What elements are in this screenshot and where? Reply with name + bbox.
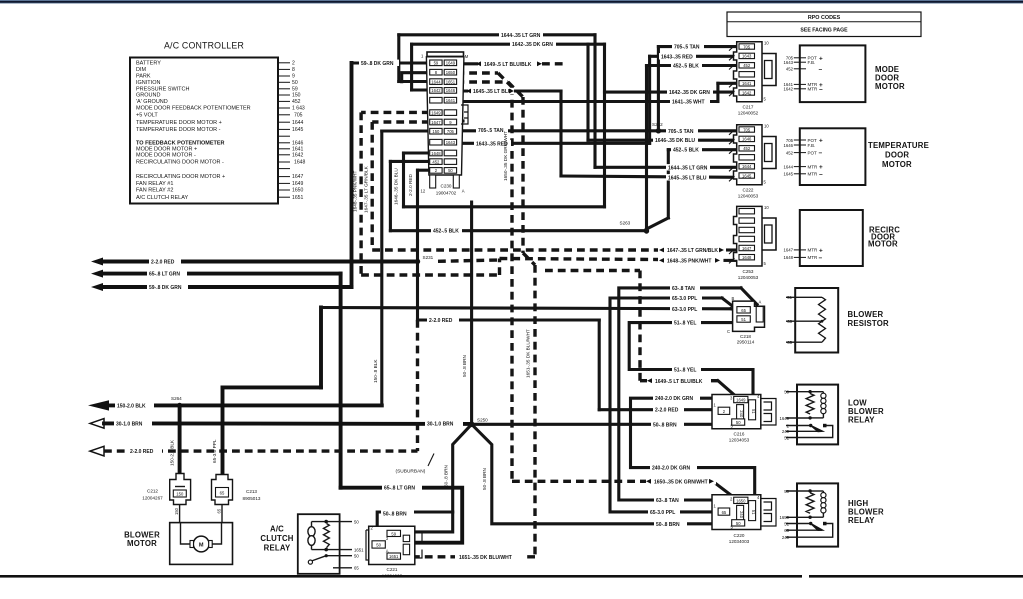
svg-text:59: 59 [292, 86, 298, 92]
svg-text:63-3.0 PPL: 63-3.0 PPL [672, 307, 697, 313]
svg-text:10: 10 [764, 124, 769, 129]
label 705-.5 TAN [666, 128, 698, 135]
svg-text:1642: 1642 [431, 88, 441, 93]
svg-text:1 643: 1 643 [292, 106, 305, 112]
wire 1650-.35 DK GRN/WHT dashed [456, 73, 734, 497]
svg-text:705-.5 TAN: 705-.5 TAN [674, 45, 700, 51]
svg-text:50: 50 [354, 519, 359, 524]
svg-text:50-.8 BRN: 50-.8 BRN [383, 512, 407, 518]
temperature door motor box [783, 128, 929, 185]
svg-text:30-1.0 BRN: 30-1.0 BRN [427, 422, 454, 428]
wire 1649-.5 LT BLU/BLK dashed [456, 64, 736, 397]
svg-text:FAN RELAY #2: FAN RELAY #2 [136, 188, 173, 194]
label 51-.8 YEL [672, 319, 701, 326]
svg-text:65: 65 [220, 491, 225, 496]
svg-text:C: C [727, 329, 730, 334]
wire labels horizontal [114, 32, 726, 561]
svg-text:S250: S250 [477, 418, 488, 423]
svg-text:IGNITION: IGNITION [136, 80, 160, 86]
svg-text:+: + [819, 247, 823, 254]
svg-text:9: 9 [292, 74, 295, 80]
svg-text:1644: 1644 [292, 120, 303, 126]
bottom page rule right [809, 575, 1023, 578]
label 65-.8 LT GRN [382, 485, 422, 492]
svg-text:1641: 1641 [742, 81, 752, 86]
wire 65-.8 LT GRN to C221 [341, 488, 463, 543]
svg-text:50-.8 BRN: 50-.8 BRN [482, 468, 487, 490]
svg-text:F.B.: F.B. [808, 143, 816, 148]
svg-text:2-2.0 RED: 2-2.0 RED [655, 408, 679, 414]
svg-text:59-.8 DK GRN: 59-.8 DK GRN [361, 61, 394, 67]
low blower relay box [779, 385, 884, 445]
svg-text:1648: 1648 [431, 151, 441, 156]
svg-text:12040053: 12040053 [738, 275, 759, 280]
label 1642-.35 DK GRN [510, 41, 556, 48]
label 65-.8 LT GRN [147, 270, 187, 277]
label 63-.8 TAN [670, 285, 700, 292]
svg-text:65-.8 LT GRN: 65-.8 LT GRN [384, 486, 415, 492]
svg-text:M: M [465, 54, 469, 59]
svg-text:50: 50 [736, 420, 741, 425]
label 2-2.0 RED [427, 317, 459, 324]
svg-text:1650: 1650 [446, 70, 456, 75]
svg-text:12: 12 [421, 189, 426, 194]
svg-text:50: 50 [354, 554, 359, 559]
svg-text:1651: 1651 [292, 195, 303, 201]
svg-text:C221: C221 [387, 567, 398, 572]
label 65-3.0 PPL [648, 509, 680, 516]
wire labels rotated [169, 131, 530, 490]
svg-text:2-2.0 RED: 2-2.0 RED [408, 174, 413, 196]
svg-text:2-2.0 RED: 2-2.0 RED [429, 318, 453, 324]
svg-text:150-2.0 BLK: 150-2.0 BLK [169, 439, 174, 466]
svg-text:A/C CONTROLLER: A/C CONTROLLER [164, 41, 244, 51]
svg-text:63-.8 TAN: 63-.8 TAN [672, 286, 695, 292]
svg-text:150-2.0 BLK: 150-2.0 BLK [117, 403, 146, 409]
svg-text:1649: 1649 [431, 110, 441, 115]
svg-text:1642-.35 DK GRN: 1642-.35 DK GRN [669, 90, 710, 96]
label 452-.5 BLK [671, 62, 702, 69]
wire 452-.5 BLK from connector pin 452 to S263 [390, 161, 646, 230]
svg-text:1644: 1644 [742, 164, 752, 169]
svg-text:1642-.35 DK GRN: 1642-.35 DK GRN [512, 42, 553, 48]
svg-text:1642: 1642 [292, 152, 303, 158]
label 1649-.5 LT BLU/BLK [647, 378, 711, 385]
svg-text:'A' GROUND: 'A' GROUND [136, 99, 168, 105]
wire 63-3.0 PPL into C218 [731, 309, 737, 311]
wire 705-.5 TAN to S252 [456, 129, 736, 132]
wire 2-2.0 RED left arrow bus [91, 258, 418, 266]
svg-text:150-.8 BLK: 150-.8 BLK [373, 359, 378, 383]
svg-text:+: + [819, 164, 823, 171]
label 1646-.35 DK BLU [653, 137, 698, 144]
svg-text:B: B [732, 296, 735, 301]
node S231 [415, 259, 420, 264]
svg-text:10: 10 [764, 205, 769, 210]
svg-text:C216: C216 [734, 431, 745, 436]
svg-text:1649-.5 LT BLU/BLK: 1649-.5 LT BLU/BLK [655, 379, 703, 385]
blower motor box [124, 523, 232, 565]
svg-text:−: − [819, 66, 823, 73]
wire 50-.8 BRN to C216 [472, 423, 717, 426]
svg-text:51-.8 YEL: 51-.8 YEL [674, 368, 696, 374]
svg-text:452-.5 BLK: 452-.5 BLK [433, 229, 459, 235]
label 2-2.0 RED [653, 407, 684, 414]
svg-text:1649-.5 LT BLU/BLK: 1649-.5 LT BLU/BLK [484, 62, 532, 68]
wire 50-.8 BRN drop to C221 (left) [377, 424, 471, 541]
label 63-.8 TAN [654, 497, 684, 504]
label 59-.8 DK GRN [147, 284, 188, 291]
svg-text:MODE DOOR FEEDBACK POTENTIOMET: MODE DOOR FEEDBACK POTENTIOMETER [136, 106, 251, 112]
node S264 [177, 403, 182, 408]
svg-text:59: 59 [434, 61, 439, 66]
svg-text:BLOWER: BLOWER [848, 310, 884, 319]
label 1649-.5 LT BLU/BLK [476, 61, 542, 68]
svg-text:705-.5 TAN: 705-.5 TAN [478, 128, 504, 134]
svg-text:452: 452 [432, 159, 440, 164]
svg-text:−: − [819, 87, 823, 94]
svg-text:12004267: 12004267 [142, 495, 163, 500]
svg-text:51: 51 [751, 510, 756, 515]
svg-text:C218: C218 [740, 334, 751, 339]
wire 1648-.35 PNK/WHT dashed [361, 112, 737, 275]
wire 150-2.0 BLK drop to C212 [178, 405, 182, 480]
svg-text:452: 452 [786, 150, 794, 155]
svg-text:12034003: 12034003 [729, 539, 750, 544]
svg-text:1645: 1645 [292, 127, 303, 133]
svg-text:150: 150 [176, 492, 184, 497]
svg-text:150: 150 [432, 129, 440, 134]
svg-text:59: 59 [391, 532, 396, 537]
a/c clutch relay box [260, 514, 364, 574]
wire 65-3.0 PPL riser to resistor and C220 [610, 298, 737, 512]
svg-text:65-3.0 PPL: 65-3.0 PPL [212, 439, 217, 463]
svg-text:1643: 1643 [446, 140, 456, 145]
svg-text:50-.8 BRN: 50-.8 BRN [444, 465, 449, 487]
A/C controller box [130, 58, 278, 204]
svg-text:1647: 1647 [292, 174, 303, 180]
svg-text:MTR: MTR [808, 172, 818, 177]
svg-text:RECIRCULATING DOOR MOTOR -: RECIRCULATING DOOR MOTOR - [136, 160, 224, 166]
svg-text:BATTERY: BATTERY [136, 60, 161, 66]
svg-text:452-.5 BLK: 452-.5 BLK [673, 64, 699, 70]
svg-text:1647: 1647 [742, 246, 752, 251]
label 1644-.35 LT GRN [499, 32, 543, 39]
svg-text:1647-.35 LT GRN/BLK: 1647-.35 LT GRN/BLK [667, 248, 718, 254]
label 30-1.0 BRN [114, 420, 152, 427]
svg-text:452: 452 [743, 63, 751, 68]
svg-text:65: 65 [722, 510, 727, 515]
svg-text:705: 705 [743, 44, 751, 49]
svg-text:30-1.0 BRN: 30-1.0 BRN [116, 421, 143, 427]
svg-text:RELAY: RELAY [264, 544, 291, 553]
svg-text:1643: 1643 [742, 54, 752, 59]
svg-text:1648: 1648 [742, 255, 752, 260]
connector C222 [729, 124, 776, 199]
label 150-2.0 BLK [115, 402, 154, 409]
node S252 [656, 128, 661, 133]
top page border bar [0, 0, 1023, 4]
svg-text:SEE FACING PAGE: SEE FACING PAGE [800, 28, 848, 34]
label 63-3.0 PPL [670, 306, 702, 313]
svg-text:+: + [819, 138, 823, 145]
wire 1644-.35 LT GRN top bus [399, 35, 737, 168]
connector C220 [712, 495, 776, 544]
svg-text:+: + [819, 55, 823, 62]
label 50-.8 BRN [381, 510, 414, 517]
svg-text:452: 452 [743, 146, 751, 151]
svg-text:10: 10 [764, 41, 769, 46]
svg-text:1645-.35 LT BLU: 1645-.35 LT BLU [668, 175, 707, 181]
svg-text:63-.8 TAN: 63-.8 TAN [656, 498, 679, 504]
svg-text:50: 50 [376, 543, 381, 548]
svg-text:A/C: A/C [270, 525, 284, 534]
svg-text:GROUND: GROUND [136, 93, 160, 99]
node S250 [469, 422, 475, 428]
svg-text:705-.5 TAN: 705-.5 TAN [668, 129, 694, 135]
svg-text:POT: POT [808, 150, 818, 155]
label 51-.8 YEL [672, 366, 701, 373]
svg-text:PARK: PARK [136, 74, 151, 80]
svg-text:F.B.: F.B. [808, 60, 816, 65]
svg-text:MOTOR: MOTOR [868, 240, 898, 249]
svg-text:(SUBURBAN): (SUBURBAN) [396, 469, 426, 475]
svg-text:RPO CODES: RPO CODES [808, 15, 841, 21]
svg-text:50: 50 [448, 168, 453, 173]
svg-text:1647-.35 LT GRN/BLK: 1647-.35 LT GRN/BLK [363, 165, 368, 213]
svg-text:65-.8 LT GRN: 65-.8 LT GRN [149, 272, 180, 278]
wire 240-2.0 DK GRN C216 to C220 [631, 398, 755, 505]
svg-text:MODE DOOR MOTOR -: MODE DOOR MOTOR - [136, 152, 196, 158]
svg-text:1641: 1641 [446, 98, 456, 103]
wire 452-.5 BLK riser to C222 [647, 150, 737, 229]
connector C253 [729, 205, 776, 280]
wire 2-2.0 RED vertical from connector pin 2 [418, 170, 430, 451]
svg-text:1650: 1650 [736, 498, 746, 503]
svg-text:1650-.35 DK GRN/WHT: 1650-.35 DK GRN/WHT [654, 480, 708, 486]
svg-text:MTR: MTR [808, 255, 818, 260]
wire 65-3.0 PPL drop to C213 [223, 308, 732, 481]
label 452-.5 BLK [671, 147, 702, 154]
svg-text:CLUTCH: CLUTCH [260, 534, 293, 543]
wire 1641-.35 WHT [456, 83, 736, 101]
label 50-.8 BRN [654, 521, 687, 528]
label 705-.5 TAN [672, 43, 704, 50]
label 30-1.0 BRN [425, 421, 463, 428]
svg-text:65: 65 [354, 566, 359, 571]
svg-text:1644: 1644 [431, 79, 441, 84]
svg-text:RELAY: RELAY [848, 516, 875, 525]
wire 1651-.35 DK BLU/WHT dashed [412, 82, 535, 557]
svg-text:RECIRCULATING DOOR MOTOR +: RECIRCULATING DOOR MOTOR + [136, 174, 225, 180]
svg-text:RESISTOR: RESISTOR [848, 319, 889, 328]
connector C217 [729, 41, 776, 116]
svg-text:1651: 1651 [446, 79, 456, 84]
svg-text:59-.8 DK GRN: 59-.8 DK GRN [149, 285, 182, 291]
svg-text:FAN RELAY #1: FAN RELAY #1 [136, 181, 173, 187]
svg-text:1646: 1646 [446, 88, 456, 93]
wire 59-.8 DK GRN left arrow bus [91, 63, 430, 291]
svg-text:1646: 1646 [783, 143, 793, 148]
svg-text:2: 2 [292, 60, 295, 66]
svg-text:C212: C212 [147, 488, 158, 493]
svg-text:1642: 1642 [742, 90, 752, 95]
svg-text:A/C CLUTCH RELAY: A/C CLUTCH RELAY [136, 195, 188, 201]
connector C218 [727, 296, 765, 344]
label 2-2.0 RED [149, 258, 181, 265]
wire 1647-.35 LT GRN/BLK dashed [372, 122, 737, 250]
svg-text:1648: 1648 [783, 255, 793, 260]
connector C221 [366, 525, 422, 578]
svg-text:8905013: 8905013 [243, 496, 261, 501]
RPO CODES box [727, 12, 921, 37]
svg-text:12034053: 12034053 [729, 437, 750, 442]
svg-text:50: 50 [292, 80, 298, 86]
A/C controller pin list [136, 60, 251, 200]
svg-text:1645: 1645 [783, 172, 793, 177]
label 1641-.35 WHT [670, 98, 710, 105]
svg-text:−: − [819, 171, 823, 178]
svg-text:S231: S231 [423, 255, 434, 260]
wire jumper row10-left to bus [404, 153, 605, 207]
svg-text:1647: 1647 [431, 120, 441, 125]
svg-text:1646-.35 DK BLU: 1646-.35 DK BLU [394, 168, 399, 205]
svg-text:50-.8 BRN: 50-.8 BRN [462, 355, 467, 377]
connector C216 [712, 394, 776, 442]
svg-text:452-.5 BLK: 452-.5 BLK [673, 148, 699, 154]
label 240-2.0 DK GRN [650, 464, 697, 471]
label 59-.8 DK GRN [359, 60, 399, 67]
label 705-.5 TAN [476, 127, 508, 134]
svg-text:A: A [386, 549, 389, 554]
wire 150-2.0 BLK left arrow bus [88, 400, 382, 410]
label 1645-.35 LT BLU [666, 174, 709, 181]
label 1642-.35 DK GRN [667, 89, 713, 96]
svg-text:C253: C253 [743, 269, 754, 274]
svg-text:1651-.35 DK BLU/WHT: 1651-.35 DK BLU/WHT [459, 555, 512, 561]
svg-text:1648-.35 PNK/WHT: 1648-.35 PNK/WHT [353, 170, 358, 212]
svg-text:M: M [199, 543, 204, 549]
svg-text:1643: 1643 [783, 60, 793, 65]
svg-text:1645: 1645 [742, 173, 752, 178]
svg-text:−: − [819, 150, 823, 157]
svg-text:1644-.35 LT GRN: 1644-.35 LT GRN [501, 33, 541, 39]
svg-text:1649: 1649 [446, 61, 456, 66]
svg-text:2950114: 2950114 [737, 339, 755, 344]
svg-text:51-.8 YEL: 51-.8 YEL [674, 321, 696, 327]
svg-text:RELAY: RELAY [848, 416, 875, 425]
wire 2-2.0 RED branch to low blower relay [418, 320, 718, 410]
svg-text:1644-.35 LT GRN: 1644-.35 LT GRN [668, 165, 708, 171]
svg-text:1649: 1649 [736, 398, 746, 403]
svg-text:PRESSURE SWITCH: PRESSURE SWITCH [136, 86, 190, 92]
svg-text:MTR: MTR [808, 248, 818, 253]
wire 1646-.35 DK BLU [588, 44, 737, 140]
svg-text:12034003: 12034003 [382, 573, 403, 578]
svg-text:12040052: 12040052 [738, 111, 759, 116]
connector C230 body [421, 52, 469, 194]
wire 50-.8 BRN drop to C220 [472, 424, 717, 524]
connector C212 [142, 474, 190, 505]
svg-text:1651: 1651 [389, 554, 399, 559]
svg-text:A: A [759, 300, 762, 305]
svg-text:1648: 1648 [294, 160, 305, 166]
svg-text:65-3.0 PPL: 65-3.0 PPL [672, 296, 697, 302]
svg-text:2-2.0 RED: 2-2.0 RED [130, 449, 154, 455]
connector C230 pin boxes [430, 60, 457, 173]
svg-text:2-2.0 RED: 2-2.0 RED [151, 260, 175, 266]
svg-text:MOTOR: MOTOR [127, 539, 157, 548]
recirc door motor box [783, 210, 900, 266]
label 1645-.35 LT BLU [466, 88, 514, 95]
mode door motor box [783, 45, 905, 102]
svg-text:150: 150 [292, 93, 301, 99]
svg-text:240: 240 [739, 511, 744, 519]
svg-text:1648-.35 PNK/WHT: 1648-.35 PNK/WHT [667, 259, 711, 265]
wire 65 stub to blower motor [216, 505, 222, 523]
wire 65-.8 LT GRN left arrow bus [91, 270, 341, 488]
label 65-3.0 PPL [670, 295, 702, 302]
svg-text:A: A [462, 189, 465, 194]
wire 1642-.35 DK GRN top bus [412, 44, 737, 207]
svg-text:MOTOR: MOTOR [875, 82, 905, 91]
wire pin 9 stub [456, 119, 463, 122]
label 1643-.35 RED [659, 53, 696, 60]
label 1647-.35 LT GRN/BLK [658, 247, 726, 254]
svg-text:−: − [819, 255, 823, 262]
svg-text:1650-.35 DK GRN/WHT: 1650-.35 DK GRN/WHT [503, 131, 508, 181]
suburban pointer [396, 454, 435, 475]
high blower relay box [779, 483, 884, 546]
svg-text:TEMPERATURE: TEMPERATURE [868, 141, 929, 150]
svg-text:705: 705 [447, 129, 455, 134]
wire 50-.8 BRN riser from S250 [470, 202, 473, 424]
svg-text:DIM: DIM [136, 67, 147, 73]
node S263 [644, 228, 649, 233]
bottom page rule left [0, 575, 802, 578]
connector C213 [212, 475, 261, 505]
svg-text:50-.8 BRN: 50-.8 BRN [653, 422, 677, 428]
svg-text:12040053: 12040053 [738, 194, 759, 199]
label 452-.5 BLK [431, 228, 462, 235]
svg-text:50: 50 [736, 521, 741, 526]
svg-text:240-2.0 DK GRN: 240-2.0 DK GRN [655, 396, 693, 402]
svg-text:1649: 1649 [292, 181, 303, 187]
svg-text:65: 65 [216, 508, 221, 513]
label 50-.8 BRN [651, 421, 684, 428]
svg-text:240-2.0 DK GRN: 240-2.0 DK GRN [652, 466, 690, 472]
wire pin 8 stub [402, 73, 430, 82]
wire 30-1.0 BRN left arrow bus to S250 [90, 419, 472, 429]
svg-text:C230: C230 [441, 184, 452, 189]
svg-text:65: 65 [741, 308, 746, 313]
svg-text:C217: C217 [743, 105, 754, 110]
wire 63-.8 TAN resistor to C220 [619, 288, 757, 508]
svg-text:TEMPERATURE DOOR MOTOR -: TEMPERATURE DOOR MOTOR - [136, 127, 221, 133]
svg-text:705: 705 [743, 127, 751, 132]
svg-text:19004702: 19004702 [436, 191, 457, 196]
svg-text:150: 150 [174, 507, 179, 515]
wire 150 stub to blower motor [174, 505, 180, 523]
label 1648-.35 PNK/WHT [658, 257, 722, 264]
label 2-2.0 RED [128, 448, 162, 455]
label 240-2.0 DK GRN [653, 395, 700, 402]
svg-text:1643-.35 RED: 1643-.35 RED [661, 54, 693, 60]
svg-text:TEMPERATURE DOOR MOTOR +: TEMPERATURE DOOR MOTOR + [136, 120, 222, 126]
svg-text:MTR: MTR [808, 164, 818, 169]
wire 1643-.35 RED [456, 56, 736, 143]
label 1650-.35 DK GRN/WHT [646, 478, 716, 485]
